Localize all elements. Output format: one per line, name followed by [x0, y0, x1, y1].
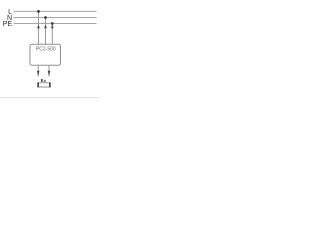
arrow left output down [37, 71, 40, 77]
plug arrow PE terminal [51, 25, 54, 29]
arrow right output down [48, 71, 51, 77]
earth electrode left terminal [37, 82, 39, 87]
wire PE drop to device [51, 24, 53, 45]
svg-text:E: E [41, 78, 44, 83]
page rule line [0, 96, 100, 98]
earth electrode right terminal [49, 82, 51, 87]
junction dot on L [37, 10, 40, 13]
wire N drop to device [45, 18, 47, 45]
device U1 PC2-500 box [30, 44, 61, 65]
svg-text:PC2-500: PC2-500 [36, 47, 56, 53]
wire N rail [14, 17, 97, 19]
earth electrode bar [38, 83, 50, 87]
node label E subscript [44, 80, 45, 82]
wire device output right [48, 65, 50, 76]
plug arrow N terminal [44, 25, 47, 29]
junction dot on N [44, 16, 47, 19]
svg-text:PE: PE [3, 21, 13, 28]
wire L rail [14, 10, 97, 12]
wire PE rail [14, 23, 97, 25]
plug arrow L terminal [37, 25, 40, 29]
wire device output left [37, 65, 39, 76]
junction dot on PE [51, 22, 54, 25]
wire L drop to device [38, 11, 40, 44]
